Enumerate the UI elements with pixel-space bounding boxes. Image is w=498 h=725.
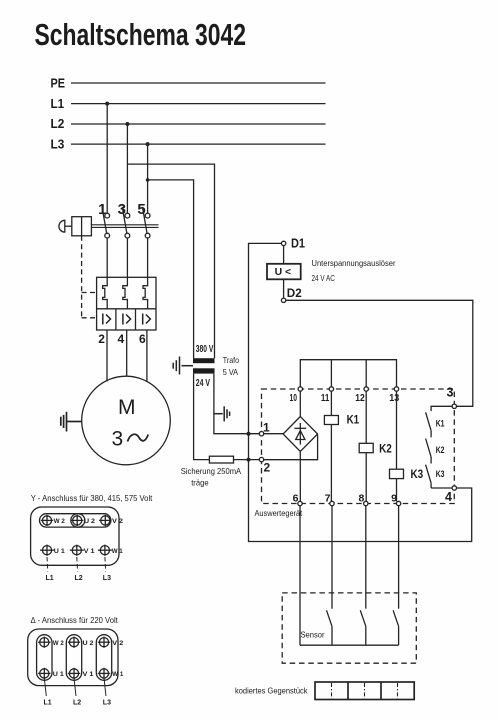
terminal 6 <box>293 493 303 506</box>
svg-text:W 1: W 1 <box>112 671 123 678</box>
svg-text:D1: D1 <box>291 237 305 251</box>
svg-text:K1: K1 <box>436 419 445 429</box>
svg-text:Schaltschema 3042: Schaltschema 3042 <box>35 17 247 52</box>
terminal 11 <box>321 387 334 404</box>
breaker Q1 pole 3 contact <box>122 207 130 238</box>
undervoltage release U< wiring <box>247 243 472 541</box>
sensor dashed enclosure <box>282 593 416 663</box>
svg-text:2: 2 <box>264 461 271 475</box>
svg-text:W 2: W 2 <box>54 518 65 525</box>
D leads L1 L2 L3 <box>44 678 106 696</box>
terminal 13 <box>389 387 399 404</box>
wire 6 to motor <box>146 330 148 382</box>
breaker Q1 pole 5 contact <box>142 207 150 238</box>
fuse F2 250mA <box>181 456 262 487</box>
undervoltage release U1 <box>267 246 396 299</box>
terminal 3 <box>447 386 457 409</box>
Y screw U2 <box>71 515 95 526</box>
svg-text:24 V: 24 V <box>196 378 210 389</box>
svg-text:L3: L3 <box>51 137 65 151</box>
transformer core ground <box>173 357 193 375</box>
terminal 8 <box>358 493 368 506</box>
breaker handle <box>59 217 92 236</box>
contact K3 <box>426 457 453 488</box>
D screw V2 <box>98 637 124 648</box>
Y-connection terminal box <box>31 507 119 565</box>
svg-text:K2: K2 <box>436 445 445 455</box>
svg-text:Auswertegerät: Auswertegerät <box>255 509 303 518</box>
wire 4 to motor <box>126 330 128 377</box>
svg-text:K3: K3 <box>411 467 424 481</box>
terminal labels 2 4 6 <box>98 332 146 346</box>
svg-text:7: 7 <box>325 493 331 505</box>
D screw U2 <box>68 637 94 648</box>
magnetic trip I> pole 3 <box>123 314 131 325</box>
svg-text:1: 1 <box>263 421 270 435</box>
motor M1 <box>82 376 171 465</box>
svg-text:U 2: U 2 <box>83 640 94 647</box>
terminal 1 <box>259 421 270 436</box>
svg-text:6: 6 <box>139 332 146 346</box>
D screw U1 <box>38 668 64 679</box>
D screw W2 <box>38 637 64 648</box>
Auswertegeraet dashed enclosure <box>262 389 455 504</box>
wire D2 to contact chain terminal 3 <box>286 300 473 406</box>
sensor common wire <box>300 644 399 646</box>
svg-text:Trafo: Trafo <box>223 355 239 365</box>
wire trafo secondary left to fuse <box>194 374 210 460</box>
svg-text:5 VA: 5 VA <box>223 367 238 377</box>
svg-text:K3: K3 <box>436 469 445 479</box>
magnetic trip I> pole 5 <box>143 314 151 325</box>
svg-text:10: 10 <box>290 393 298 404</box>
contact K2 <box>426 431 445 457</box>
svg-text:L1: L1 <box>46 575 54 582</box>
relay coil K1 <box>324 391 359 501</box>
internal link bus 10-11-12-13 <box>300 360 396 389</box>
svg-text:L1: L1 <box>51 97 65 111</box>
svg-text:3: 3 <box>112 428 124 451</box>
svg-text:U 2: U 2 <box>84 518 95 525</box>
svg-text:L2: L2 <box>51 117 65 131</box>
relay coil K2 <box>359 391 392 501</box>
Y screw W1 <box>98 545 123 556</box>
wire L3 to pole 5 <box>147 144 149 213</box>
svg-text:Sicherung 250mA: Sicherung 250mA <box>181 466 242 476</box>
wire trafo secondary right to terminal 1 <box>214 374 262 434</box>
terminal 10 <box>290 387 303 404</box>
Y screw V1 <box>70 545 95 556</box>
bridge rectifier V1 <box>264 391 318 501</box>
bus L2 <box>51 117 326 131</box>
svg-text:380 V: 380 V <box>196 344 214 355</box>
bus L3 <box>51 137 326 151</box>
svg-text:U 1: U 1 <box>54 548 65 555</box>
terminal D2 <box>281 286 302 302</box>
sensor wire 8 with reed contact <box>360 506 366 646</box>
breaker Q1 pole terminal labels 1 3 5 <box>98 201 146 218</box>
svg-text:W 2: W 2 <box>53 640 64 647</box>
thermal element pole 1 <box>103 238 108 309</box>
D screw W1 <box>98 668 124 679</box>
svg-text:M: M <box>118 396 136 419</box>
thermal element pole 3 <box>123 238 128 309</box>
motor ground <box>61 412 82 432</box>
sensor wire 6 <box>299 506 301 646</box>
Y screw W2 <box>41 515 65 526</box>
svg-text:D2: D2 <box>287 286 302 300</box>
svg-text:K1: K1 <box>347 413 360 427</box>
svg-text:13: 13 <box>389 393 399 404</box>
terminal 7 <box>325 493 335 506</box>
relay coil K3 <box>390 391 424 501</box>
svg-text:W 1: W 1 <box>112 548 123 555</box>
svg-text:6: 6 <box>293 493 299 505</box>
wire L2 to pole 3 <box>126 124 128 213</box>
wire L2 branch to trafo primary right <box>127 164 214 358</box>
svg-text:3: 3 <box>447 386 454 400</box>
magnetic trip I> pole 1 <box>103 314 111 325</box>
sensor wire 9 with reed contact <box>393 506 399 646</box>
terminal 9 <box>391 493 401 506</box>
svg-text:V 2: V 2 <box>112 518 123 525</box>
terminal 2 <box>259 457 270 474</box>
svg-text:V 1: V 1 <box>84 548 95 555</box>
svg-text:9: 9 <box>391 493 397 505</box>
sensor wire 7 with reed contact <box>327 506 333 646</box>
D screw V1 <box>68 668 94 679</box>
svg-text:L2: L2 <box>73 700 81 707</box>
thermal element pole 5 <box>143 238 148 309</box>
Y screw V2 <box>99 515 123 526</box>
svg-text:4: 4 <box>118 332 125 346</box>
svg-text:U 1: U 1 <box>53 671 64 678</box>
svg-text:V 1: V 1 <box>83 671 94 678</box>
svg-text:24 V AC: 24 V AC <box>312 273 335 283</box>
terminal 4 <box>445 486 456 504</box>
svg-text:U <: U < <box>275 266 292 278</box>
transformer T1 windings <box>193 344 239 389</box>
svg-text:L3: L3 <box>103 575 111 582</box>
contact K1 <box>426 406 453 430</box>
svg-text:K2: K2 <box>379 442 392 456</box>
svg-text:8: 8 <box>358 493 364 505</box>
svg-text:4: 4 <box>445 490 452 504</box>
svg-text:kodiertes Gegenstück: kodiertes Gegenstück <box>235 687 308 696</box>
wire 2 to motor <box>106 330 108 382</box>
svg-text:L1: L1 <box>44 700 52 707</box>
svg-text:L2: L2 <box>75 575 83 582</box>
svg-text:Y - Anschluss für 380, 415, 57: Y - Anschluss für 380, 415, 575 Volt <box>31 493 153 503</box>
Y leads L1 L2 L3 <box>47 557 106 572</box>
secondary ground <box>214 406 230 421</box>
breaker Q1 pole 1 contact <box>102 207 110 238</box>
svg-text:PE: PE <box>51 76 66 90</box>
overload relay block F1 <box>97 277 156 330</box>
terminal D1 <box>281 237 305 251</box>
svg-text:Unterspannungsauslöser: Unterspannungsauslöser <box>312 258 396 268</box>
svg-text:12: 12 <box>355 393 365 404</box>
svg-text:V 2: V 2 <box>112 640 123 647</box>
breaker shaft linkage <box>91 225 158 228</box>
breaker trip linkage (dashed) <box>82 236 97 318</box>
bus PE <box>51 76 326 90</box>
svg-text:11: 11 <box>321 393 330 404</box>
Y screw U1 <box>40 545 65 556</box>
wire L3 branch to trafo primary left <box>146 178 194 358</box>
coded counterpart block <box>315 682 414 700</box>
svg-text:träge: träge <box>191 477 209 487</box>
svg-text:∆ - Anschluss für 220 Volt: ∆ - Anschluss für 220 Volt <box>31 615 119 625</box>
Delta-connection terminal box <box>28 629 118 686</box>
wire L1 to pole 1 <box>106 104 108 214</box>
svg-text:Sensor: Sensor <box>301 631 325 640</box>
svg-text:L3: L3 <box>103 700 111 707</box>
terminal 12 <box>355 387 368 404</box>
bus L1 <box>51 97 326 111</box>
svg-text:2: 2 <box>98 332 105 346</box>
